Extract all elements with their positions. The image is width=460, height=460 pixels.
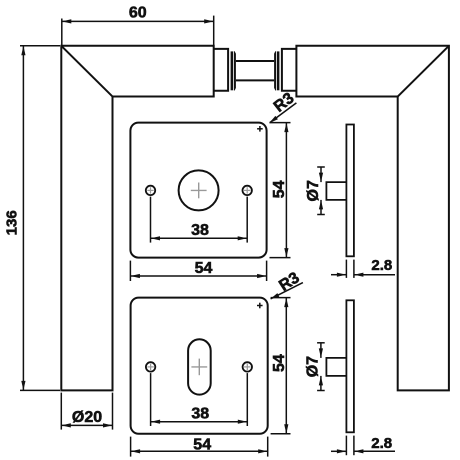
bottom rosette side view spindle stub	[326, 358, 346, 376]
dimension 54 (bottom rosette width)	[131, 436, 268, 456]
svg-text:54: 54	[271, 354, 288, 372]
svg-text:60: 60	[129, 4, 147, 21]
dimension 54 (top rosette height)	[270, 123, 291, 258]
dimension 2.8 (top plate thickness)	[331, 257, 395, 278]
bottom rosette right screw hole	[243, 362, 252, 371]
dimension Ø7 (bottom spindle)	[305, 343, 325, 391]
bottom rosette center cross	[191, 359, 207, 376]
dimension 136 (handle height)	[4, 46, 61, 391]
dimension Ø20 (grip diameter)	[61, 393, 112, 430]
top rosette right screw hole	[243, 186, 252, 195]
svg-text:2.8: 2.8	[371, 435, 392, 452]
svg-text:38: 38	[191, 222, 209, 239]
left handle neck	[214, 49, 228, 91]
left collar ring	[231, 51, 236, 90]
svg-text:54: 54	[271, 180, 288, 198]
right handle neck	[282, 49, 297, 91]
dimension 38 (top rosette hole spacing)	[151, 197, 248, 243]
svg-text:Ø7: Ø7	[305, 356, 322, 377]
radius label R3 (top rosette)	[269, 90, 298, 124]
top rosette center cross	[191, 183, 207, 199]
svg-text:2.8: 2.8	[371, 257, 392, 274]
top rosette spindle hole	[179, 170, 219, 210]
dimension 2.8 (bottom plate thickness)	[331, 435, 395, 455]
svg-text:38: 38	[191, 405, 209, 422]
dimension 38 (bottom rosette hole spacing)	[151, 373, 248, 426]
svg-text:54: 54	[195, 260, 213, 277]
dimension 60 (lever length)	[62, 4, 214, 46]
svg-text:Ø20: Ø20	[72, 409, 102, 426]
top rosette side view spindle stub	[326, 182, 346, 200]
bottom rosette plate (front view)	[131, 298, 268, 434]
bottom rosette plus mark	[257, 303, 263, 309]
dimension 54 (bottom rosette height)	[271, 298, 291, 434]
spindle bar	[236, 61, 274, 80]
top rosette plus mark	[257, 126, 263, 132]
top rosette side view plate	[346, 125, 354, 257]
svg-text:54: 54	[193, 436, 211, 453]
radius label R3 (bottom rosette)	[270, 269, 303, 299]
svg-text:Ø7: Ø7	[305, 180, 322, 201]
dimension 54 (top rosette width)	[130, 260, 266, 281]
left door handle lever (front view)	[61, 46, 213, 391]
right collar ring	[274, 51, 279, 90]
bottom rosette key slot	[188, 339, 211, 394]
dimension Ø7 (top spindle)	[305, 167, 325, 215]
svg-text:136: 136	[4, 210, 21, 235]
bottom rosette left screw hole	[146, 362, 155, 371]
right door handle lever (front view)	[296, 46, 449, 391]
top rosette left screw hole	[146, 186, 155, 195]
bottom rosette side view plate	[346, 300, 354, 432]
top rosette plate (front view)	[130, 123, 266, 258]
